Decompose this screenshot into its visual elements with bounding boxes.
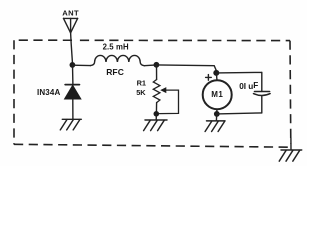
svg-text:RFC: RFC — [106, 67, 124, 77]
wire shield box to ground stub — [290, 138, 292, 150]
wire R1 bottom to ground — [155, 114, 157, 120]
svg-text:5K: 5K — [136, 88, 146, 97]
wire junction to RFC — [72, 64, 90, 66]
wire meter top stub — [215, 73, 218, 80]
wire capacitor top lead — [261, 72, 263, 91]
ground (below meter) — [205, 121, 225, 132]
wire R1 top lead — [156, 65, 158, 80]
inductor RFC 2.5 mH — [91, 55, 145, 65]
node A junction dot — [70, 62, 76, 68]
node R1 bottom junction dot — [154, 111, 160, 117]
potentiometer wiper arrow — [160, 87, 179, 114]
ground (below diode) — [60, 119, 81, 130]
svg-text:IN34A: IN34A — [37, 88, 60, 97]
node meter top junction dot — [213, 70, 219, 76]
svg-text:0I uF: 0I uF — [239, 81, 258, 91]
wire RFC to R1 node — [144, 64, 156, 67]
wire capacitor bottom lead — [261, 96, 263, 113]
wire antenna lead down into box — [71, 33, 73, 62]
diode D1 IN34A anode triangle — [64, 85, 81, 99]
svg-text:R1: R1 — [137, 79, 146, 88]
ground (enclosure, bottom right) — [279, 150, 302, 161]
wire meter bottom to ground — [215, 114, 217, 121]
wire meter bottom to capacitor (bottom) — [217, 113, 262, 114]
svg-text:ANT: ANT — [62, 9, 79, 18]
wire meter node to capacitor (top) — [217, 71, 262, 74]
node meter bottom junction dot — [214, 111, 220, 117]
wire R1 bottom lead — [155, 103, 157, 114]
wire meter bottom stub — [216, 110, 218, 114]
antenna ANT — [64, 18, 78, 32]
wire diode top lead — [72, 65, 74, 84]
node R1 top junction dot — [154, 62, 160, 68]
capacitor C1 bottom curved plate — [254, 94, 271, 96]
meter M1 circle — [203, 80, 232, 109]
wire diode to ground — [72, 99, 74, 119]
svg-text:2.5 mH: 2.5 mH — [103, 42, 129, 51]
wire R1 node to meter node — [156, 65, 216, 71]
polarity + sign — [206, 75, 212, 81]
diode D1 IN34A cathode bar — [65, 84, 79, 86]
capacitor C1 top plate — [255, 91, 270, 93]
enclosure shield box (dashed) — [14, 40, 291, 147]
svg-text:M1: M1 — [211, 90, 223, 99]
potentiometer R1 5K zigzag — [153, 80, 160, 103]
ground (below R1) — [144, 120, 167, 131]
